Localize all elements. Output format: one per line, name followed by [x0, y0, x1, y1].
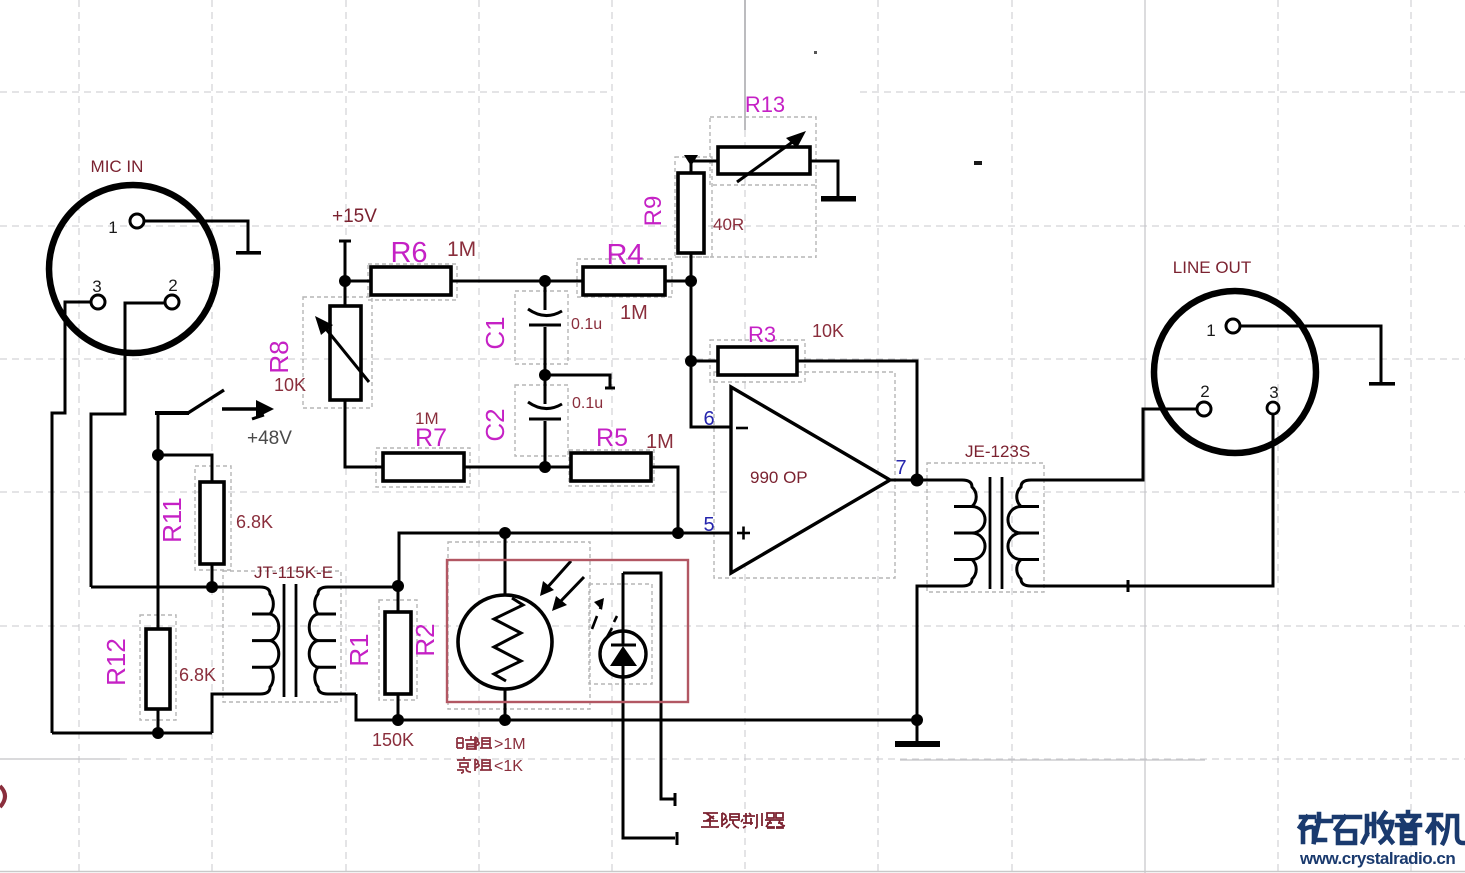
wire opamp output	[890, 479, 917, 482]
wire R8 bottom lead to R7	[345, 400, 383, 467]
switch SW phantom	[155, 390, 224, 413]
svg-text:1: 1	[1206, 321, 1215, 340]
svg-text:40R: 40R	[713, 215, 744, 234]
resistor R7	[383, 453, 464, 481]
wire mic pin3 down to bottom bus	[52, 302, 91, 733]
wire R3 right to output node	[797, 361, 917, 480]
resistor R6	[371, 267, 451, 295]
wire R2 bottom lead	[504, 689, 507, 720]
svg-text:990 OP: 990 OP	[750, 468, 808, 487]
node R3 tap	[685, 355, 697, 367]
svg-text:R13: R13	[745, 92, 785, 117]
wire JE primary top lead	[917, 479, 962, 482]
svg-text:R7: R7	[415, 424, 447, 452]
svg-text:+48V: +48V	[247, 428, 292, 449]
+48V arrow	[222, 400, 274, 419]
svg-text:R12: R12	[101, 638, 131, 686]
wire JT secondary bottom lead	[328, 693, 356, 696]
transformer JE-123S	[954, 477, 1039, 589]
svg-text:2: 2	[168, 276, 177, 295]
node R7/C2/R5	[539, 461, 551, 473]
wire secondary-side bottom bus	[356, 694, 917, 720]
wire R5 right lead down to pin5 net	[651, 467, 678, 533]
wire mic pin2 down to transformer primary	[91, 303, 165, 587]
svg-text:0.1u: 0.1u	[571, 316, 602, 333]
wire JE secondary bottom to line-out pin3	[1031, 415, 1273, 586]
svg-text:R3: R3	[748, 322, 776, 347]
watermark logo CJK 矿石收音机	[1300, 812, 1464, 843]
svg-text:R11: R11	[157, 497, 187, 543]
resistor R1	[385, 612, 411, 694]
resistor R9	[678, 173, 704, 253]
wire R9 bottom lead	[690, 253, 693, 281]
wire R1 top lead	[397, 586, 400, 612]
resistor R3	[718, 347, 797, 375]
ground symbol main	[895, 741, 940, 747]
svg-text:3: 3	[1269, 383, 1278, 402]
wire R9 top lead	[690, 155, 693, 173]
resistor R4	[583, 267, 665, 295]
wire C2 top lead	[544, 375, 547, 404]
node ground	[911, 714, 923, 726]
wire R6 right to node	[451, 280, 583, 283]
wire C1 bottom lead	[544, 327, 547, 375]
wire +15V stub	[339, 241, 351, 281]
svg-text:www.crystalradio.cn: www.crystalradio.cn	[1299, 849, 1455, 868]
svg-text:MIC IN: MIC IN	[91, 157, 144, 176]
wire R11 bottom lead	[211, 564, 214, 587]
transformer JT-115K-E	[252, 584, 336, 697]
CJK: 暗阻 (dark-resistance)	[457, 736, 492, 749]
photoresistor R2	[458, 561, 584, 689]
node R2 bottom	[499, 714, 511, 726]
svg-text:R6: R6	[390, 237, 427, 269]
svg-text:1M: 1M	[646, 431, 674, 453]
node R11 bottom	[206, 581, 218, 593]
svg-text:JT-115K-E: JT-115K-E	[254, 563, 333, 582]
svg-text:R4: R4	[606, 239, 643, 271]
node C1/C2	[539, 369, 551, 381]
red highlight box around R2 and LED	[447, 560, 688, 702]
lineout pin1 open bar	[1369, 382, 1395, 386]
svg-text:3: 3	[92, 277, 101, 296]
wire primary top net	[91, 586, 260, 589]
XLR connector MIC IN	[49, 185, 217, 353]
wire R2 top lead	[504, 533, 507, 595]
capacitor C1	[528, 309, 562, 325]
svg-text:R1: R1	[344, 633, 374, 666]
svg-text:R8: R8	[264, 340, 294, 373]
wire R3 left lead	[691, 360, 718, 363]
stray magenta arc at left edge	[0, 786, 5, 807]
resistor R12	[146, 629, 170, 709]
node output 7	[911, 474, 924, 487]
wire LED top-route end tick	[674, 793, 677, 806]
svg-text:R2: R2	[410, 623, 440, 656]
node +15V/R6/R8	[339, 275, 351, 287]
矿	[1300, 817, 1325, 842]
svg-text:1: 1	[108, 218, 117, 237]
svg-text:1M: 1M	[415, 409, 439, 428]
svg-text:0.1u: 0.1u	[572, 395, 603, 412]
wire JE secondary top to line-out pin2	[1031, 409, 1197, 480]
node R6/R4/C1	[539, 275, 551, 287]
wire node R4R9 down to pin6	[691, 281, 731, 427]
wire JT secondary top lead	[328, 586, 398, 589]
svg-text:R9: R9	[640, 196, 667, 227]
wire mic pin1 to open bar	[144, 221, 248, 252]
CJK: 亮阻 (bright-resistance)	[457, 757, 492, 773]
石	[1334, 817, 1360, 843]
svg-text:6.8K: 6.8K	[236, 512, 273, 532]
svg-text:R5: R5	[596, 424, 628, 452]
stray dash mark	[974, 161, 982, 165]
wire JE primary bottom lead	[917, 586, 962, 720]
svg-text:6: 6	[703, 408, 714, 430]
node pin5/R5	[672, 527, 684, 539]
XLR connector LINE OUT	[1154, 291, 1316, 453]
svg-text:<1K: <1K	[494, 758, 523, 775]
stray dot	[814, 51, 817, 54]
wire line-out pin1 to open bar	[1240, 326, 1381, 383]
wire LED top lead	[622, 573, 625, 632]
CJK: 至限制器 (to limiter)	[701, 813, 785, 828]
机	[1428, 815, 1442, 843]
svg-text:10K: 10K	[274, 375, 306, 395]
音	[1397, 812, 1420, 843]
wire LED top route to limiter	[623, 573, 674, 799]
svg-text:+15V: +15V	[332, 206, 377, 227]
node pin5/R2	[499, 527, 511, 539]
svg-text:2: 2	[1200, 382, 1209, 401]
wire primary-side bottom bus	[52, 732, 212, 735]
wire pin5 net	[399, 533, 731, 586]
svg-text:C2: C2	[480, 408, 510, 441]
svg-text:JE-123S: JE-123S	[965, 442, 1030, 461]
selection marquee dashed boxes	[140, 117, 1044, 720]
svg-text:C1: C1	[480, 316, 510, 349]
ground symbol at R13	[821, 196, 856, 202]
svg-text:LINE OUT: LINE OUT	[1173, 258, 1251, 277]
wire C2 bottom lead	[544, 421, 547, 467]
svg-text:7: 7	[895, 457, 906, 479]
收	[1363, 814, 1374, 842]
wire R4 right lead	[665, 280, 691, 283]
resistor R5	[571, 453, 651, 481]
op-amp U1 990 OP	[731, 387, 890, 573]
svg-text:150K: 150K	[372, 730, 414, 750]
wire ground lead at output side	[916, 720, 919, 741]
wire node down to R12	[157, 455, 160, 629]
resistor R11	[200, 482, 224, 564]
wire switch pole down	[157, 413, 160, 455]
svg-text:1M: 1M	[620, 302, 648, 324]
wire R6 left lead	[345, 280, 371, 283]
capacitor C2	[528, 402, 562, 419]
wire R8 top lead	[344, 281, 347, 306]
node R12 bottom	[152, 727, 164, 739]
wire R1 bottom lead	[397, 694, 400, 720]
wire R12 bottom lead	[157, 709, 160, 733]
potentiometer R13	[684, 131, 810, 182]
node switch/R11/R12	[152, 449, 164, 461]
node R4/R9	[685, 275, 697, 287]
wire R13 left lead	[691, 160, 718, 163]
wire C1 top lead	[544, 281, 547, 310]
svg-text:>1M: >1M	[494, 736, 526, 753]
svg-text:6.8K: 6.8K	[179, 665, 216, 685]
mic pin1 open bar	[236, 251, 261, 255]
wire R7 right to node	[464, 466, 571, 469]
potentiometer R8	[315, 306, 369, 400]
node R1 bottom	[392, 714, 404, 726]
node R1 top	[392, 580, 404, 592]
LED D1	[592, 598, 646, 677]
svg-text:10K: 10K	[812, 321, 844, 341]
wire tick on secondary bottom	[1127, 580, 1130, 592]
svg-text:1M: 1M	[447, 238, 476, 261]
svg-text:5: 5	[703, 514, 714, 536]
wire open stub at C1-C2 node	[545, 375, 615, 388]
wire LED bottom-route end tick	[676, 832, 679, 845]
wire LED bottom route to limiter	[623, 677, 675, 838]
wire JT primary bottom lead	[212, 694, 260, 733]
wire node to R11 top	[158, 455, 212, 482]
wire R13 right lead to ground	[810, 161, 838, 197]
